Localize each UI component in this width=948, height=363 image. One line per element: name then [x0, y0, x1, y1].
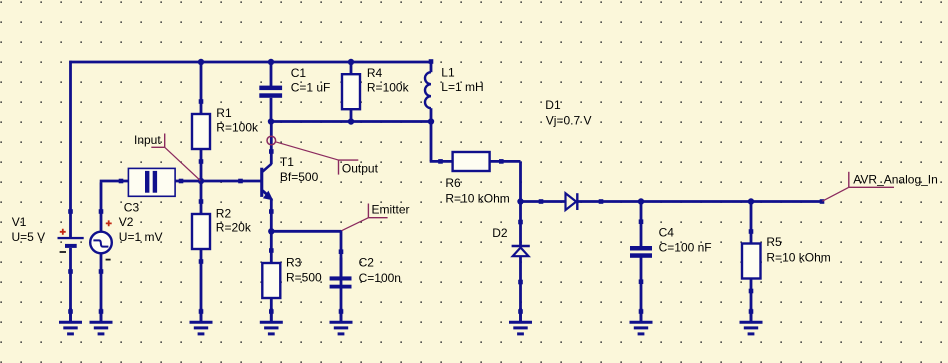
svg-text:Input: Input [134, 133, 161, 147]
ground (V2) [90, 308, 113, 334]
capacitor C4 [630, 219, 652, 284]
wire R4 bottom pin [350, 109, 353, 121]
svg-text:R4: R4 [367, 66, 383, 80]
svg-text:R6: R6 [445, 176, 461, 190]
node: rail junction R1 top [198, 59, 204, 65]
inductor L1 [425, 59, 433, 121]
resistor R3 [262, 248, 280, 298]
node: collector junction C1 bottom [268, 118, 274, 124]
svg-text:AVR_Analog_In: AVR_Analog_In [853, 172, 938, 186]
svg-text:Vj=0.7 V: Vj=0.7 V [546, 113, 592, 127]
wire top supply rail from V1 to L1 [69, 61, 431, 64]
node: rail junction C1 top [268, 59, 274, 65]
node: R4 bottom junction [348, 118, 354, 124]
wire V1 to ground [69, 248, 72, 322]
svg-text:Bf=500: Bf=500 [280, 170, 319, 184]
ground (R3) [260, 308, 283, 334]
capacitor C3 (input coupling, boxed) [119, 168, 184, 196]
svg-text:C3: C3 [124, 201, 140, 215]
svg-text:V2: V2 [119, 215, 134, 229]
svg-text:Output: Output [342, 161, 379, 175]
wire D2 bottom to ground [519, 256, 522, 322]
wire corner down to detector node [519, 161, 522, 201]
node: C4 top junction [638, 198, 644, 204]
wire emitter node to C2 [271, 230, 341, 233]
node: detector junction D2 top [517, 198, 523, 204]
resistor R6 [438, 152, 503, 171]
diode D2 (clamp, cathode up) [512, 220, 530, 285]
resistor R1 [192, 99, 210, 164]
transistor T1 (NPN) [238, 149, 273, 214]
svg-text:R=100k: R=100k [367, 80, 410, 94]
svg-text:D1: D1 [545, 98, 561, 112]
wire detector node to D1 anode [521, 200, 566, 203]
wire R3 top pin [270, 231, 273, 263]
node: R5 top junction [748, 198, 754, 204]
node: base junction [198, 178, 204, 184]
wire R4 top pin [350, 62, 353, 74]
wire R1 top from rail [200, 62, 203, 114]
capacitor C2 [330, 249, 352, 288]
svg-text:R1: R1 [216, 106, 232, 120]
wire C1 bottom pin [270, 98, 273, 122]
ground (V1) [59, 308, 82, 334]
wire R5 bottom to ground [750, 279, 753, 323]
wire V2 top to C3 row [100, 182, 103, 231]
svg-text:R5: R5 [766, 235, 782, 249]
svg-text:U=5 V: U=5 V [12, 230, 46, 244]
wire left rail V1 up [69, 61, 72, 237]
svg-text:C4: C4 [659, 225, 675, 239]
wire R6 right pin to corner [490, 160, 521, 163]
ground (R2) [190, 308, 213, 334]
node: rail junction R4 top [348, 59, 354, 65]
ground (C4) [630, 308, 653, 334]
node label Emitter [342, 203, 410, 231]
capacitor C1 [259, 86, 282, 98]
wire D2 top pin [519, 202, 522, 246]
diode D1 (series detector) [539, 193, 604, 210]
svg-text:C=100n: C=100n [359, 271, 401, 285]
voltage source V1 [58, 209, 84, 274]
wire L1 bottom junction down to R6 row [430, 122, 433, 162]
svg-text:L=1 mH: L=1 mH [441, 80, 483, 94]
svg-text:D2: D2 [492, 226, 508, 240]
svg-text:T1: T1 [280, 155, 294, 169]
wire R2 bottom to ground [200, 249, 203, 322]
svg-text:L1: L1 [441, 66, 455, 80]
svg-text:Emitter: Emitter [372, 203, 410, 217]
svg-text:C=100 nF: C=100 nF [659, 240, 712, 254]
wire C3 to base node [157, 180, 201, 183]
svg-text:R=10 kOhm: R=10 kOhm [766, 251, 830, 265]
wire T1 collector to rail2 [270, 122, 273, 165]
wire R5 node to output end [751, 200, 822, 203]
wire C4 node to R5 node [641, 200, 751, 203]
svg-text:U=1 mV: U=1 mV [119, 230, 163, 244]
resistor R4 [342, 74, 360, 109]
node label Output [267, 136, 379, 175]
wire R5 top pin [750, 202, 753, 244]
svg-text:R=10 kOhm: R=10 kOhm [445, 191, 509, 205]
wire R1 bottom to base node [200, 149, 203, 181]
ground (D2) [509, 308, 532, 334]
svg-text:C1: C1 [291, 66, 307, 80]
svg-text:R=100k: R=100k [216, 121, 259, 135]
voltage source V2 (AC) [90, 209, 112, 274]
wire base node to T1 base [201, 180, 261, 183]
resistor R2 [192, 199, 210, 264]
svg-text:R=20k: R=20k [216, 220, 252, 234]
svg-text:V1: V1 [12, 215, 27, 229]
svg-text:R=500: R=500 [286, 270, 322, 284]
ground (R5) [740, 308, 763, 334]
node label AVR_Analog_Input [822, 172, 938, 201]
wire R3 bottom to ground [270, 298, 273, 322]
node: L1 bottom junction [428, 118, 434, 124]
wire C1 top pin [270, 62, 273, 86]
ground (C2) [330, 308, 353, 334]
wire C2 bottom to ground [340, 258, 343, 323]
svg-text:R3: R3 [286, 255, 302, 269]
svg-text:R2: R2 [216, 207, 232, 221]
wire C4 top pin [640, 202, 643, 247]
wire D1 cathode to C4 node [577, 200, 641, 203]
node: emitter junction [268, 228, 274, 234]
svg-text:C=1 uF: C=1 uF [291, 80, 331, 94]
wire V2 bottom to ground [100, 254, 103, 322]
node label Input [134, 133, 200, 181]
wire second rail C1/R4/L1 bottoms [271, 120, 431, 123]
resistor R5 [742, 229, 761, 293]
svg-text:C2: C2 [359, 255, 375, 269]
wire C4 bottom to ground [640, 258, 643, 323]
wire T1 emitter down to emitter node [270, 198, 273, 231]
wire base node to R2 top [200, 181, 203, 214]
wire R6 left pin [430, 160, 453, 163]
